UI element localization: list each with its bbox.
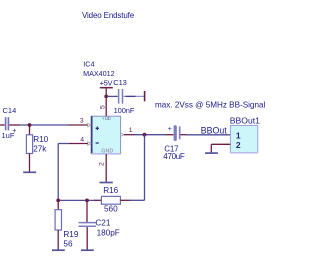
wire R10 top stub [29, 125, 31, 135]
wire pin 2 to ground [211, 143, 230, 145]
capacitor C17 [163, 125, 186, 161]
svg-text:180pF: 180pF [97, 228, 120, 237]
svg-text:R19: R19 [63, 230, 78, 239]
svg-text:560: 560 [104, 204, 118, 213]
svg-text:3: 3 [80, 118, 84, 125]
wire C21 bottom stub [86, 227, 88, 250]
resistor R16 [94, 186, 131, 213]
svg-text:C14: C14 [3, 106, 17, 115]
wire R16 to output node [130, 199, 145, 201]
connector BBOut1 [205, 115, 260, 153]
ground [100, 182, 113, 184]
svg-text:+Ub: +Ub [102, 116, 111, 122]
svg-text:IC4: IC4 [83, 60, 94, 69]
svg-text:1: 1 [236, 130, 241, 140]
svg-text:R16: R16 [103, 186, 118, 195]
wire R19 bottom stub [57, 230, 59, 250]
wire feedback: pin4 net [58, 143, 69, 145]
ground (rotated bar) [144, 91, 146, 101]
svg-text:MAX4012: MAX4012 [83, 69, 115, 78]
C21 plates [79, 222, 97, 224]
svg-text:BBOut: BBOut [201, 125, 227, 135]
wire R16 right stub [120, 199, 130, 201]
svg-text:GND: GND [101, 149, 113, 155]
resistor R10 [23, 125, 48, 172]
wire op-amp pin1 output stub [124, 134, 134, 136]
ground [205, 152, 218, 154]
+5V supply [100, 79, 113, 117]
wire node to C13 [107, 95, 118, 97]
svg-text:+5V: +5V [100, 79, 113, 88]
node junction C21 [85, 199, 89, 203]
svg-text:R10: R10 [33, 135, 48, 144]
svg-text:max. 2Vss @ 5MHz BB-Signal: max. 2Vss @ 5MHz BB-Signal [155, 100, 265, 109]
resistor R19 [52, 200, 79, 250]
svg-text:Video Endstufe: Video Endstufe [82, 11, 135, 20]
svg-text:BBOut1: BBOut1 [230, 115, 260, 125]
wire (C14 right pin stub) [9, 124, 20, 126]
svg-text:C21: C21 [95, 219, 110, 228]
svg-text:C13: C13 [113, 78, 126, 87]
capacitor C14 [0, 106, 20, 140]
wire feedback vertical [57, 144, 59, 201]
wire C17 right stub [181, 134, 187, 136]
wire output net [134, 134, 166, 136]
wire R16 left stub [94, 199, 102, 201]
wire (input stub to C14 left) [0, 124, 5, 126]
svg-text:+: + [12, 128, 16, 135]
svg-text:27k: 27k [33, 145, 47, 154]
svg-text:+: + [168, 126, 172, 133]
svg-text:470uF: 470uF [163, 152, 185, 161]
C13 plates [118, 89, 120, 104]
op-amp IC4 MAX4012 [80, 60, 133, 183]
wire feedback bottom horizontal [58, 199, 93, 201]
wire R10 bottom stub [29, 154, 31, 172]
wire supply to op-amp pin 5 [105, 88, 107, 116]
wire R19 top stub [57, 200, 59, 209]
wire C13 to ground bar [123, 95, 144, 97]
wire C21 top stub [86, 200, 88, 222]
ground [52, 249, 65, 251]
wire pin 3 stub [69, 124, 88, 126]
wire pin 4 stub [69, 143, 88, 145]
node junction supply/C13 [104, 95, 108, 99]
svg-text:2: 2 [99, 162, 106, 166]
opamp - input mark [96, 142, 99, 144]
wire net BBOut [187, 134, 231, 136]
capacitor C13 [107, 78, 145, 115]
ground [81, 249, 94, 251]
C14 plates [5, 117, 7, 130]
node junction output/R16 [143, 133, 147, 137]
opamp + input mark [96, 127, 99, 129]
wire pin 2 to ground [105, 154, 107, 182]
node junction at C14/R10 [28, 123, 32, 127]
svg-text:56: 56 [63, 239, 73, 248]
wire net C14 to op-amp pin 3 [20, 124, 69, 126]
svg-text:2: 2 [236, 140, 241, 150]
node junction feedback/R19 [56, 199, 60, 203]
svg-text:4: 4 [80, 137, 84, 144]
svg-text:1: 1 [129, 127, 133, 134]
svg-text:100nF: 100nF [114, 106, 135, 115]
wire C17 left stub [166, 134, 174, 136]
capacitor C21 [79, 200, 120, 250]
ground [23, 171, 36, 173]
